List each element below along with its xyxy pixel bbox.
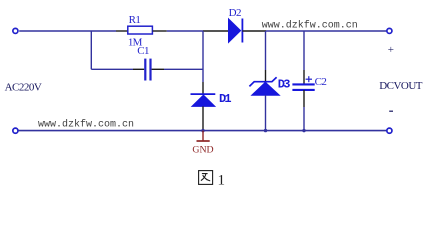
terminal top-right bbox=[387, 28, 392, 33]
wire D1 anode pin black bbox=[202, 106, 204, 130]
svg-text:C1: C1 bbox=[137, 45, 149, 57]
ground bar bbox=[197, 140, 210, 142]
svg-text:www.dzkfw.com.cn: www.dzkfw.com.cn bbox=[262, 19, 358, 31]
junction dot D1-rail bbox=[201, 129, 204, 132]
wire C2 minus pin black bbox=[303, 90, 305, 107]
wire C1 branch right bbox=[164, 68, 203, 70]
svg-text:D3: D3 bbox=[278, 77, 290, 91]
wire C1 branch left bbox=[91, 68, 133, 70]
wire C1 left pin black bbox=[133, 68, 144, 70]
junction dot C2-rail bbox=[302, 129, 305, 132]
wire node A vertical blue bbox=[202, 31, 204, 82]
zener diode D3 bbox=[249, 77, 279, 95]
wire top rail left blue bbox=[19, 30, 116, 32]
wire C2 branch upper blue bbox=[303, 31, 305, 70]
terminal top-left bbox=[13, 28, 18, 33]
diode D1 bbox=[191, 94, 216, 106]
wire node A to D2 anode black bbox=[203, 30, 229, 32]
svg-text:GND: GND bbox=[192, 144, 213, 155]
terminal bottom-right bbox=[387, 128, 392, 133]
wire D1 cathode pin black bbox=[202, 82, 204, 94]
wire D3 branch upper blue bbox=[265, 31, 267, 70]
svg-text:1: 1 bbox=[218, 172, 226, 188]
wire C2 plus pin black bbox=[303, 70, 305, 84]
wire C1 right pin black bbox=[152, 68, 164, 70]
wire top rail right blue bbox=[266, 30, 387, 32]
wire D2 cathode pin black bbox=[242, 30, 266, 32]
svg-text:D2: D2 bbox=[229, 7, 241, 19]
diode D2 bbox=[229, 19, 243, 43]
wire R1 to node A bbox=[167, 30, 203, 32]
capacitor C2 polarized bbox=[292, 84, 314, 90]
terminal bottom-left bbox=[13, 128, 18, 133]
resistor R1 bbox=[128, 26, 153, 34]
ground stub red bbox=[202, 131, 204, 141]
C2 plus polarity mark bbox=[306, 76, 312, 82]
caption figure glyph tu bbox=[199, 171, 213, 185]
wire D3 cathode pin black bbox=[265, 70, 267, 82]
svg-text:R1: R1 bbox=[129, 14, 141, 26]
wire bottom rail bbox=[19, 130, 387, 132]
wire branch x91 vertical bbox=[90, 31, 92, 69]
minus sign output bbox=[389, 110, 393, 112]
svg-text:AC220V: AC220V bbox=[5, 82, 42, 94]
junction dot D3-rail bbox=[264, 129, 267, 132]
wire R1 left pin black bbox=[116, 30, 128, 32]
svg-text:www.dzkfw.com.cn: www.dzkfw.com.cn bbox=[38, 118, 134, 130]
capacitor C1 bbox=[145, 59, 150, 81]
svg-text:DCVOUT: DCVOUT bbox=[379, 80, 423, 92]
wire C2 to bottom rail blue bbox=[303, 107, 305, 131]
wire R1 right pin black bbox=[153, 30, 167, 32]
svg-text:D1: D1 bbox=[219, 92, 231, 106]
wire D3 anode to bottom rail bbox=[265, 95, 267, 130]
svg-text:C2: C2 bbox=[315, 76, 327, 88]
svg-text:+: + bbox=[388, 44, 394, 56]
